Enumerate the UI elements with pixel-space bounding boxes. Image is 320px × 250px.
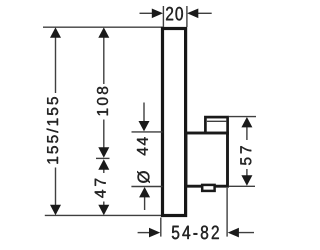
dim 155/155 line lower segment with down arrow [55,168,57,209]
top extension line (plate top, extends left) [43,26,163,28]
dim 57 bottom tick [229,185,255,187]
handle bottom tab [202,185,214,191]
dim 108 line upper segment with up arrow [103,36,105,84]
dim 20 text [166,7,183,21]
handle body [186,133,228,186]
dim O44 text 44 [137,137,148,155]
dim 57 line upper segment with up arrow [246,125,248,140]
dim 108 line lower segment with down arrow [103,120,105,150]
handle top block inner line [207,120,227,122]
dim O44 upper arrow (points down at tick) [143,103,145,125]
dim 54-82 left extension line [160,218,162,237]
dim 155/155 line upper segment with up arrow [55,36,57,93]
dim O44 upper tick [132,131,163,133]
dim O44 lower arrow (points up at tick) [144,196,146,210]
dim 54-82 left arrow [138,232,152,234]
dim 20 left arrow [140,12,155,14]
dim 47 line upper segment with up arrow [103,167,105,173]
dim 57 top tick [229,116,257,118]
dim O44 lower tick [131,186,162,188]
dim 54-82 right extension line [226,188,228,237]
wall plate [163,29,186,216]
dim 20 right arrow [196,12,211,14]
bottom extension line (plate bottom, extends left) [45,214,162,216]
dim 155/155 text [47,97,58,164]
dim 54-82 right arrow [237,232,255,234]
dim 20 left extension line [162,6,164,27]
dim O44 diameter symbol [137,171,149,183]
dim 108 text [97,87,108,116]
dim 57 line lower segment with down arrow [246,169,248,178]
dim 20 right extension line [186,6,188,27]
dim 47 line lower segment with down arrow [103,202,105,209]
dim 47 text [95,179,106,198]
dim 57 text [240,146,251,165]
dim 54-82 text [172,226,219,240]
handle top block [205,117,227,133]
dim 108 tick [96,157,110,159]
